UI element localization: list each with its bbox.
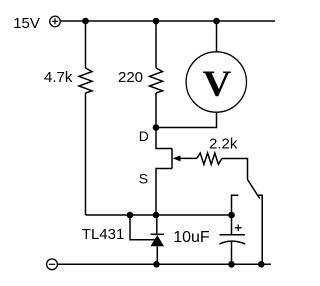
- TL431 U1 cathode bar: [151, 233, 165, 235]
- switch S1 left contact: [232, 195, 239, 215]
- transistor Q1 gate arrow: [173, 155, 181, 161]
- node cap-bottom junction: [228, 261, 235, 268]
- transistor Q1 source lead: [156, 169, 172, 216]
- svg-text:10uF: 10uF: [173, 229, 210, 246]
- wire node bus: [86, 214, 232, 216]
- capacitor C1 top lead: [231, 215, 233, 235]
- wire: [85, 93, 87, 215]
- wire: [155, 21, 157, 68]
- resistor R1 4.7k: [79, 68, 92, 93]
- capacitor C1 bottom lead: [231, 242, 233, 265]
- node cathode junction: [153, 212, 160, 219]
- transistor Q1 drain lead: [156, 128, 172, 149]
- svg-text:2.2k: 2.2k: [209, 136, 238, 153]
- negative supply terminal: [47, 259, 58, 270]
- svg-text:4.7k: 4.7k: [44, 69, 73, 86]
- switch S1 right contact: [257, 195, 262, 264]
- node D junction: [153, 124, 160, 131]
- svg-text:15V: 15V: [13, 15, 40, 32]
- node top-middle junction: [153, 18, 160, 25]
- node ref junction: [127, 212, 134, 219]
- capacitor C1 curved plate: [219, 241, 245, 244]
- node anode junction: [153, 261, 160, 268]
- svg-text:V: V: [203, 64, 232, 105]
- transistor Q1 channel: [171, 149, 173, 169]
- node top-left junction: [82, 18, 89, 25]
- TL431 U1 anode lead: [156, 246, 158, 264]
- svg-text:TL431: TL431: [82, 226, 125, 243]
- capacitor C1 plus sign: [235, 225, 242, 232]
- svg-text:S: S: [139, 170, 148, 186]
- wire bottom rail: [58, 263, 272, 265]
- wire: [222, 159, 248, 180]
- resistor R2 220: [150, 68, 163, 93]
- wire gate: [179, 157, 197, 159]
- voltmeter M1: [186, 52, 246, 112]
- node top-right junction: [213, 18, 220, 25]
- svg-text:220: 220: [118, 69, 143, 86]
- wire top rail: [60, 20, 275, 22]
- switch S1 lever: [248, 180, 260, 199]
- node switch-bottom junction: [258, 261, 265, 268]
- wire TL431 ref: [130, 215, 155, 240]
- wire: [85, 21, 87, 68]
- node cap-top junction: [228, 212, 235, 219]
- wire: [216, 21, 218, 52]
- capacitor C1 top plate: [220, 234, 246, 236]
- TL431 U1 triangle: [151, 235, 165, 246]
- svg-text:D: D: [139, 128, 149, 144]
- TL431 U1 cathode lead: [156, 215, 158, 234]
- resistor R3 2.2k: [197, 153, 222, 164]
- positive supply terminal: [50, 16, 61, 27]
- wire: [155, 93, 157, 128]
- wire: [156, 112, 217, 127]
